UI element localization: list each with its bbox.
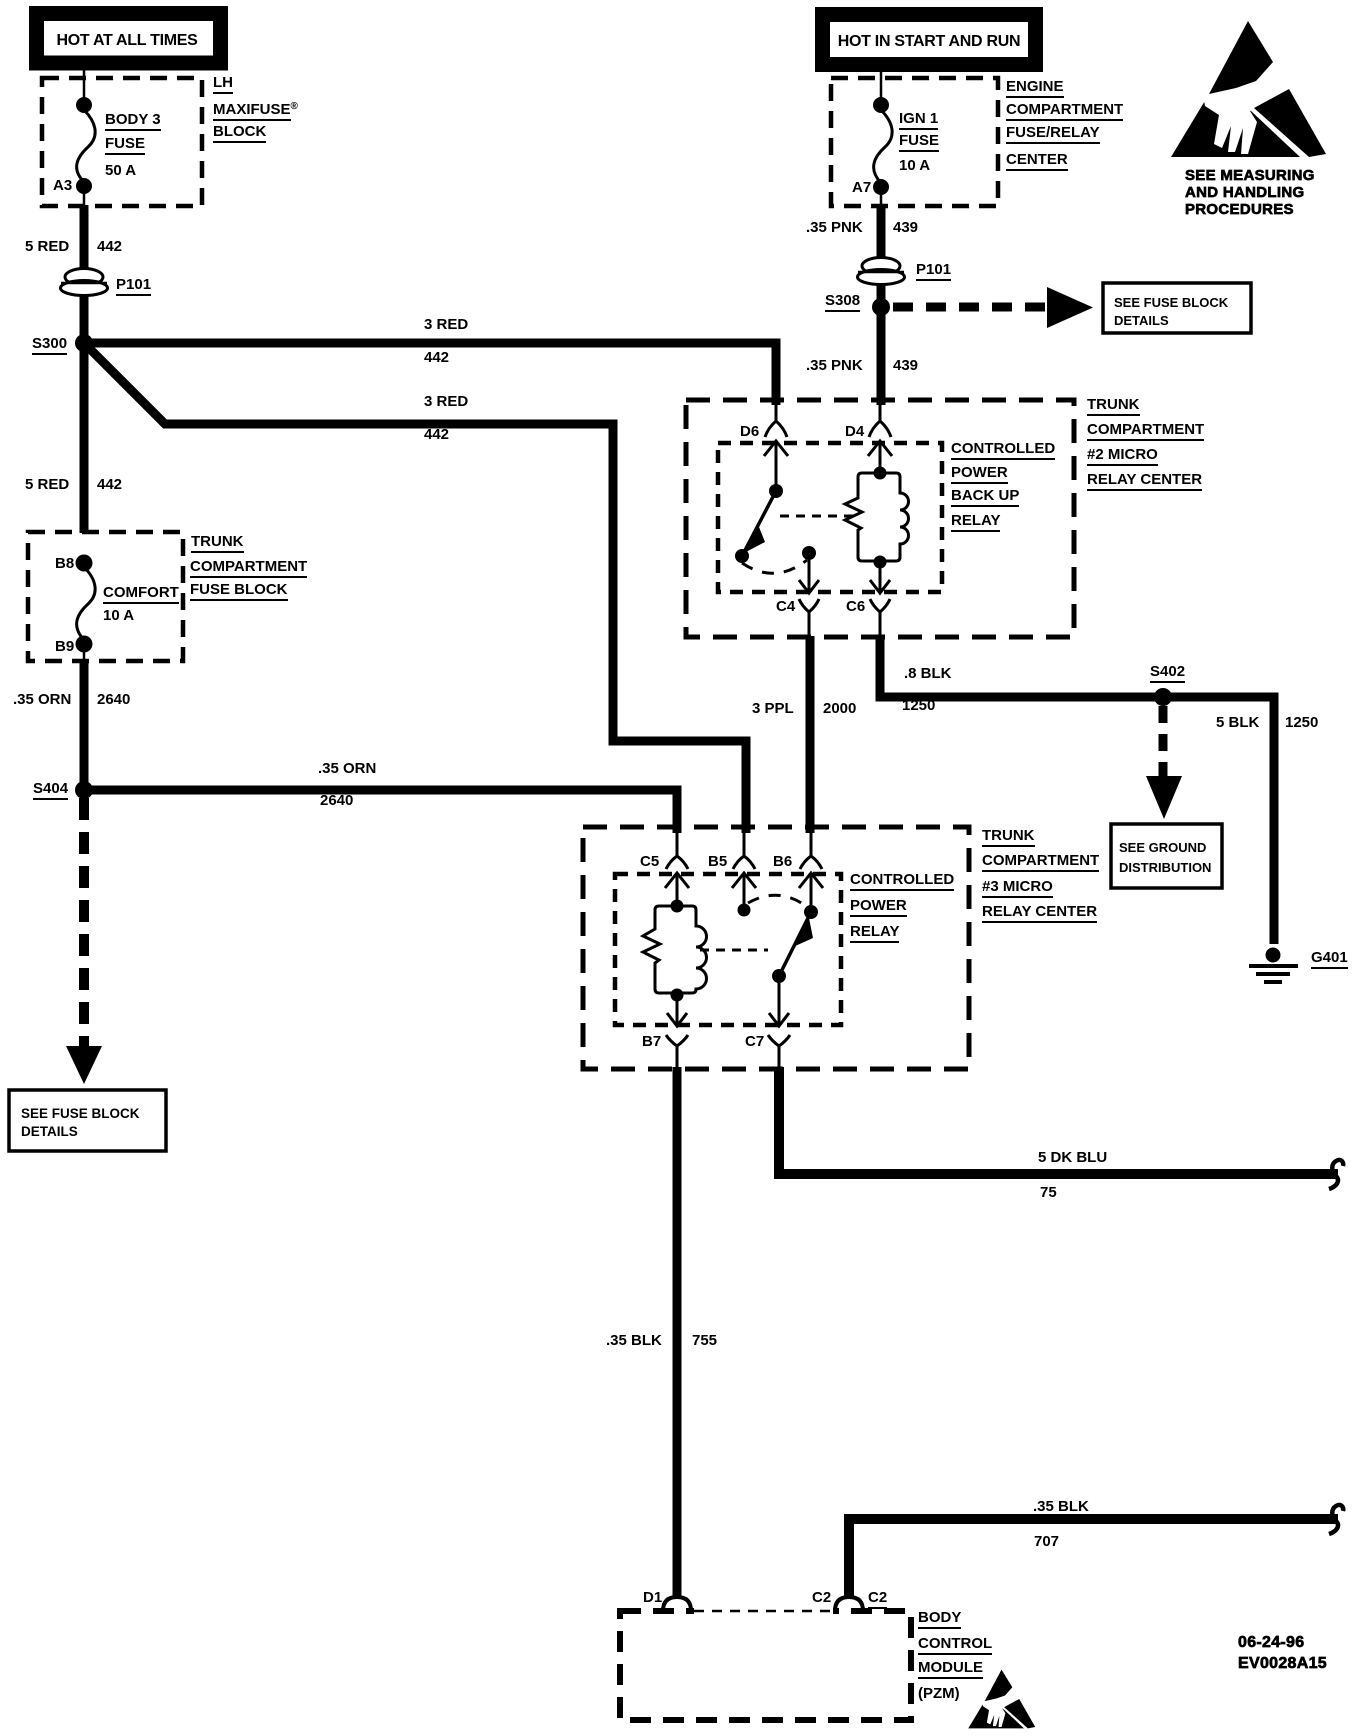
label FUSE (105, 136, 145, 155)
wire B9 to box edge (83, 648, 86, 661)
label TRUNK (191, 534, 244, 553)
label PROCEDURES (1185, 202, 1294, 217)
relay U3 switch feed arrow at B5 (732, 873, 756, 910)
label BACK UP (951, 488, 1019, 507)
label COMPARTMENT (190, 559, 307, 578)
pin C2 socket (835, 1597, 863, 1611)
label B5 (708, 854, 727, 869)
wire 3 RED 442 from S300 diagonal to relay 3 pin B5 (88, 347, 746, 833)
pin B5 (733, 829, 755, 869)
pin B8 dot (76, 555, 93, 572)
label 10 A (103, 608, 134, 623)
wire 3 PPL 2000 from C4 to relay 3 pin B6 (806, 636, 815, 833)
label CONTROLLED (850, 872, 954, 891)
label S404 (33, 781, 68, 800)
label 2000 (823, 701, 856, 716)
label FUSE BLOCK (190, 582, 288, 601)
wire .35 ORN 2640 down to S404 (80, 659, 89, 790)
label DETAILS (1114, 313, 1169, 328)
wire .35 BLK 707 from BCM pin C2 to right edge (849, 1519, 1338, 1597)
splice node S308 (872, 298, 890, 316)
label P101 (916, 262, 951, 281)
label G401 (1311, 950, 1348, 969)
label FUSE (899, 133, 939, 152)
wire .35 PNK 439 from S308 to relay 2 pin D4 (877, 307, 886, 405)
node dot above fuse BODY 3 (76, 97, 92, 113)
label COMPARTMENT (1087, 422, 1204, 441)
pin B7 (666, 1035, 688, 1069)
fuse COMFORT 10A element (77, 567, 96, 640)
callout box SEE FUSE BLOCK DETAILS right (1103, 283, 1251, 333)
label FUSE/RELAY (1006, 125, 1100, 144)
relay U2 coil bottom dot (874, 556, 887, 569)
pin B9 dot (76, 636, 93, 653)
relay U3 feed dot at B5 (738, 904, 751, 917)
relay U3 switch arm arrowhead (793, 918, 813, 947)
label 707 (1034, 1534, 1059, 1549)
label C2 (812, 1590, 831, 1605)
label COMPARTMENT (982, 853, 1099, 872)
fuse block box LH MAXIFUSE BLOCK (42, 78, 202, 206)
label .35 BLK (606, 1333, 662, 1348)
label SEE MEASURING (1185, 168, 1315, 183)
label EV0028A15 (1238, 1656, 1327, 1671)
label RELAY CENTER (1087, 472, 1202, 491)
label RELAY (850, 924, 899, 943)
wire from HOT box into fuse block (880, 66, 883, 101)
splice node S300 (75, 334, 93, 352)
ESD warning symbol large (1171, 21, 1326, 157)
wire 5 RED 442 down to P101 (80, 205, 89, 343)
label 2640 (97, 692, 130, 707)
label SEE FUSE BLOCK (21, 1106, 140, 1121)
label 442 (424, 427, 449, 442)
label DISTRIBUTION (1119, 860, 1211, 875)
label A3 (53, 178, 72, 193)
label POWER (951, 465, 1008, 484)
label 5 RED (25, 477, 69, 492)
label BODY (918, 1610, 961, 1629)
dashed wire from S308 to fuse block details (893, 303, 1046, 312)
splice node S404 (75, 781, 93, 799)
wire .8 BLK 1250 from C6 to S402 and G401 (880, 636, 1274, 944)
wire .35 ORN 2640 from S404 to relay 3 pin C5 (84, 790, 677, 833)
relay U3 coil body (643, 906, 707, 993)
pin C6 (870, 599, 890, 638)
label .35 ORN (13, 692, 71, 707)
label TRUNK (982, 828, 1035, 847)
label 3 RED (424, 394, 468, 409)
wire 3 RED 442 from S300 to relay 2 pin D6 (84, 343, 776, 405)
pin D6 (765, 400, 787, 437)
dashed wire from S402 down (1159, 706, 1168, 777)
pin C4 (799, 599, 819, 638)
relay U3 switch arm (779, 912, 811, 976)
label LH (213, 75, 233, 94)
label 5 RED (25, 239, 69, 254)
relay U2 switch arm arrowhead (744, 527, 765, 553)
label 10 A (899, 158, 930, 173)
label SEE FUSE BLOCK (1114, 295, 1228, 310)
label #2 MICRO (1087, 447, 1158, 466)
label COMPARTMENT (1006, 102, 1123, 121)
label S300 (32, 336, 67, 355)
label MAXIFUSE(R) (213, 99, 298, 121)
label 75 (1040, 1185, 1057, 1200)
label D4 (845, 424, 864, 439)
pin B6 (800, 829, 822, 869)
label 3 PPL (752, 701, 794, 716)
fuse BODY 3 50A element (77, 110, 96, 182)
relay U3 coil top dot (671, 900, 684, 913)
dashed wire from S404 to fuse block details (79, 798, 89, 1048)
label B7 (642, 1034, 661, 1049)
ESD warning symbol small at BCM (968, 1670, 1035, 1729)
label 1250 (902, 698, 935, 713)
label TRUNK (1087, 397, 1140, 416)
label HOT IN START AND RUN (838, 34, 1020, 49)
relay U2 coil output arrow to C6 (870, 562, 890, 593)
label S402 (1150, 664, 1185, 683)
label 1250 (1285, 715, 1318, 730)
relay U3 inner case box (615, 874, 841, 1025)
label (PZM) (918, 1686, 960, 1701)
relay U2 mechanical link dashed (780, 515, 856, 518)
label 442 (97, 477, 122, 492)
relay U2 output arrow to C4 (799, 553, 819, 593)
arrow to SEE FUSE BLOCK DETAILS right (1047, 287, 1093, 328)
label 5 BLK (1216, 715, 1259, 730)
wire .35 PNK 439 down to S308 (877, 204, 886, 308)
wire A3 to box edge (83, 188, 86, 207)
label C5 (640, 854, 659, 869)
arrow to SEE FUSE BLOCK DETAILS (66, 1046, 102, 1084)
label POWER (850, 898, 907, 917)
relay U3 coil output arrow to B7 (667, 995, 687, 1026)
label 439 (893, 220, 918, 235)
relay U3 switch pivot dot (804, 905, 818, 919)
relay U2 switch input arrow at D6 (764, 441, 788, 491)
label C7 (745, 1034, 764, 1049)
wire from HOT box into fuse block (83, 66, 86, 101)
relay U3 switch contact dot (772, 969, 786, 983)
power label box HOT AT ALL TIMES (37, 14, 221, 64)
label IGN 1 (899, 111, 938, 130)
label AND HANDLING (1185, 185, 1304, 200)
relay U2 contact travel dashed arc (742, 560, 807, 573)
label .8 BLK (904, 666, 952, 681)
fuse block box TRUNK COMPARTMENT FUSE BLOCK (28, 532, 183, 661)
label S308 (825, 293, 860, 312)
relay U3 contact travel dashed arc (748, 895, 806, 906)
relay center box TRUNK COMPARTMENT 3 MICRO RELAY CENTER (583, 827, 969, 1069)
label SEE GROUND (1119, 840, 1206, 855)
relay U2 coil input arrow at D4 (868, 441, 892, 473)
wire 5 RED 442 from S300 to trunk fuse block (80, 343, 89, 533)
relay U3 coil bottom dot (671, 989, 684, 1002)
label .35 PNK (806, 358, 863, 373)
label CONTROL (918, 1636, 992, 1655)
label CONTROLLED (951, 441, 1055, 460)
label 50 A (105, 163, 136, 178)
relay U2 switch pivot dot (769, 484, 783, 498)
label 442 (97, 239, 122, 254)
label C4 (776, 599, 795, 614)
label CENTER (1006, 152, 1068, 171)
fuse block box ENGINE COMPARTMENT FUSE/RELAY CENTER (831, 78, 998, 206)
label 439 (893, 358, 918, 373)
module box BODY CONTROL MODULE PZM (620, 1611, 911, 1720)
relay U3 output arrow to C7 (769, 976, 789, 1026)
arrow to SEE GROUND DISTRIBUTION (1146, 776, 1182, 819)
relay U2 coil body (845, 473, 909, 561)
label P101 (116, 277, 151, 296)
label ENGINE (1006, 79, 1064, 98)
pin A3 dot (76, 178, 92, 194)
label RELAY CENTER (982, 904, 1097, 923)
pin C5 (666, 829, 688, 869)
splice node S402 (1154, 688, 1172, 706)
label C2 (868, 1590, 887, 1609)
ground G401 (1249, 948, 1298, 983)
label COMFORT (103, 585, 179, 604)
module box top edge thin dashed segment between pins (694, 1605, 833, 1617)
label .35 BLK (1033, 1499, 1089, 1514)
node dot above fuse IGN 1 (873, 97, 889, 113)
label BLOCK (213, 124, 266, 143)
label A7 (852, 180, 871, 195)
label 06-24-96 (1238, 1635, 1304, 1650)
callout box SEE GROUND DISTRIBUTION (1111, 824, 1222, 888)
wire .35 BLK 755 from B7 to BCM pin D1 (673, 1067, 682, 1596)
label 5 DK BLU (1038, 1150, 1107, 1165)
label 2640 (320, 793, 353, 808)
label 755 (692, 1333, 717, 1348)
label B6 (773, 854, 792, 869)
relay U2 output dot to C4 (802, 546, 816, 560)
label RELAY (951, 513, 1000, 532)
label HOT AT ALL TIMES (57, 33, 198, 48)
label B8 (55, 556, 74, 571)
label 3 RED (424, 317, 468, 332)
connector P101 grommet (61, 269, 108, 296)
relay U3 switch input arrow at B6 (799, 873, 823, 912)
off-page hook arrow 5 DK BLU (1329, 1160, 1343, 1189)
pin A7 dot (873, 179, 889, 195)
label DETAILS (21, 1124, 78, 1139)
wire A7 to box edge (880, 191, 883, 206)
connector P101 grommet right (858, 258, 905, 285)
label #3 MICRO (982, 879, 1053, 898)
callout box SEE FUSE BLOCK DETAILS (9, 1090, 166, 1151)
fuse IGN 1 10A element (874, 110, 893, 183)
relay U2 switch contact dot (735, 549, 749, 563)
relay U2 switch arm (742, 491, 776, 556)
off-page hook arrow .35 BLK (1329, 1505, 1343, 1534)
relay U2 coil top dot (874, 467, 887, 480)
label D1 (643, 1590, 662, 1605)
relay center box TRUNK COMPARTMENT 2 MICRO RELAY CENTER (686, 400, 1074, 637)
wire 5 DK BLU 75 from C7 to right edge (779, 1067, 1338, 1174)
label MODULE (918, 1660, 983, 1679)
pin C7 (768, 1035, 790, 1069)
relay U3 mechanical link dashed (700, 949, 768, 952)
label .35 ORN (318, 761, 376, 776)
relay U2 inner case box (718, 443, 942, 592)
label BODY 3 (105, 112, 161, 131)
pin D4 (869, 400, 891, 437)
relay U3 coil input arrow at C5 (665, 873, 689, 906)
power label box HOT IN START AND RUN (823, 15, 1036, 65)
pin D1 socket (663, 1597, 691, 1611)
label C6 (846, 599, 865, 614)
label B9 (55, 639, 74, 654)
label D6 (740, 424, 759, 439)
label .35 PNK (806, 220, 863, 235)
label 442 (424, 350, 449, 365)
